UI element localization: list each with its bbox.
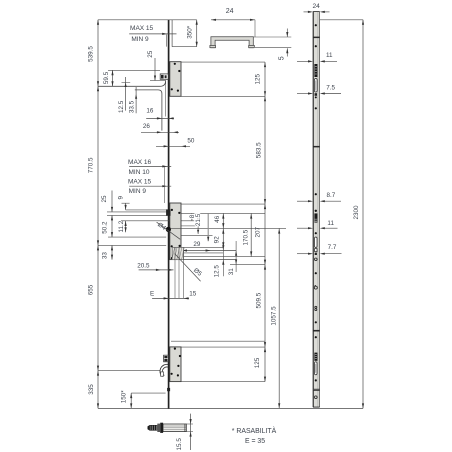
extension piece inner edge	[166, 35, 168, 47]
dim 15.5	[190, 414, 192, 450]
svg-text:92: 92	[213, 236, 220, 244]
dim 33	[111, 245, 113, 259]
svg-text:E = 35: E = 35	[245, 438, 265, 445]
svg-text:207: 207	[255, 226, 262, 237]
svg-text:12.5: 12.5	[213, 265, 220, 278]
faceplate channel cross-section	[211, 37, 253, 48]
dims 46 and 92	[222, 213, 224, 250]
svg-text:MIN 9: MIN 9	[129, 188, 147, 195]
bottom hook crescent	[160, 364, 168, 376]
svg-text:335: 335	[88, 384, 95, 395]
svg-text:125: 125	[255, 73, 262, 84]
top reference line	[98, 19, 197, 21]
svg-text:509.5: 509.5	[256, 292, 263, 308]
screw flange	[157, 424, 160, 432]
dim 25 (top)	[154, 58, 156, 81]
dim 9	[122, 202, 130, 204]
svg-text:46: 46	[214, 215, 221, 223]
svg-text:15.5: 15.5	[176, 438, 183, 451]
spindle reference lines	[126, 209, 167, 211]
svg-text:25: 25	[147, 50, 154, 58]
svg-text:655: 655	[88, 284, 95, 295]
hook linkage outer line with corner arc	[98, 81, 166, 87]
splice joints	[313, 37, 319, 39]
svg-text:MIN 9: MIN 9	[131, 36, 149, 43]
cylinder (hatched)	[172, 247, 183, 259]
cylinder axis chain tick	[98, 244, 166, 246]
gray pointer line	[207, 213, 209, 241]
svg-text:MIN 10: MIN 10	[129, 169, 150, 176]
svg-text:31: 31	[228, 268, 235, 276]
faceplate front-view main vertical line	[168, 20, 170, 409]
svg-text:33: 33	[102, 252, 109, 260]
case top ref	[181, 203, 265, 205]
main latch unit on strip	[315, 210, 317, 212]
svg-text:12.5: 12.5	[118, 100, 125, 113]
dim 59.5	[112, 70, 114, 86]
screw collar	[149, 425, 157, 431]
svg-text:24: 24	[226, 8, 234, 15]
svg-text:25: 25	[101, 195, 108, 203]
bottom hook chain tick	[98, 370, 160, 372]
dim 5 (profile height)	[286, 29, 288, 38]
leader diameter 4	[157, 222, 181, 239]
dim 31	[235, 241, 237, 272]
svg-text:170.5: 170.5	[243, 229, 250, 245]
svg-text:583.5: 583.5	[255, 142, 262, 158]
dim 11.2	[125, 221, 127, 232]
svg-text:20.5: 20.5	[137, 263, 150, 270]
cylinder extension lines	[174, 247, 176, 298]
bottom latch block	[164, 355, 169, 362]
dim 25 (mid)	[111, 191, 113, 212]
svg-text:539.5: 539.5	[87, 46, 94, 62]
dim 125 top	[264, 62, 266, 67]
svg-text:MAX 16: MAX 16	[128, 159, 152, 166]
svg-text:7.7: 7.7	[328, 244, 337, 251]
dim 1057.5	[278, 228, 280, 408]
dim 21.5	[197, 213, 199, 234]
svg-text:125: 125	[254, 357, 261, 368]
leader diameter 5	[175, 254, 201, 282]
svg-text:16: 16	[146, 108, 154, 115]
top extension piece line	[171, 20, 173, 47]
screw tip	[186, 423, 193, 425]
keyhole cutout	[314, 286, 317, 289]
svg-text:Ø5: Ø5	[192, 267, 203, 278]
svg-text:11.2: 11.2	[118, 220, 125, 232]
svg-text:26: 26	[143, 123, 151, 130]
svg-text:29: 29	[193, 241, 201, 248]
svg-text:9: 9	[118, 196, 125, 200]
svg-text:7.5: 7.5	[326, 84, 335, 91]
svg-text:50.2: 50.2	[102, 221, 109, 234]
hub axis ref line	[171, 227, 286, 229]
case top ref line	[181, 61, 265, 63]
dim 12.5 (cylinder)	[222, 241, 224, 276]
svg-text:50: 50	[187, 137, 195, 144]
svg-text:MAX 15: MAX 15	[130, 25, 154, 32]
dim 150* (trimmable bottom)	[131, 392, 165, 394]
strip screw holes	[315, 24, 317, 26]
fixing screw body	[163, 424, 186, 432]
svg-text:150*: 150*	[121, 390, 128, 404]
case bottom ref line	[181, 95, 265, 97]
bottom assembly top ref	[171, 340, 265, 342]
svg-text:15: 15	[189, 290, 197, 297]
top hook deviator case	[170, 62, 181, 97]
svg-text:2300: 2300	[353, 205, 360, 220]
dim chain x=265: 125/583.5/207/509.5/125	[264, 62, 266, 382]
double hole	[315, 306, 317, 308]
bottom reference line	[98, 407, 363, 409]
svg-text:33.5: 33.5	[129, 100, 136, 113]
svg-text:* RASABILITÀ: * RASABILITÀ	[232, 426, 277, 435]
case inner top ref	[181, 212, 265, 214]
cylinder area lines	[174, 246, 224, 248]
dim 33.5	[135, 87, 137, 113]
svg-text:350*: 350*	[186, 25, 193, 39]
dim 170.5	[250, 213, 252, 256]
svg-text:MAX 15: MAX 15	[128, 179, 152, 186]
svg-text:59.5: 59.5	[103, 71, 110, 84]
bottom latch unit on strip	[314, 353, 317, 361]
faceplate side view strip	[313, 12, 320, 408]
svg-text:24: 24	[313, 3, 321, 10]
svg-text:E: E	[150, 290, 154, 297]
svg-text:770.5: 770.5	[87, 157, 94, 173]
svg-text:5: 5	[278, 56, 285, 60]
main lock case	[170, 203, 181, 260]
dim 12.5 (top)	[125, 77, 127, 111]
top latch unit on strip	[314, 64, 317, 77]
hook linkage inner line with corner arc down to rod	[135, 90, 162, 131]
svg-text:Ø4: Ø4	[156, 221, 167, 232]
dim 8	[191, 213, 193, 220]
rod edge line	[165, 81, 167, 117]
screw thread	[150, 426, 152, 431]
left dimension chain	[97, 20, 99, 409]
dim 50.2	[111, 215, 113, 237]
svg-text:11: 11	[327, 220, 334, 227]
overall length dim 2300	[362, 20, 364, 409]
dim 350* (trimmable top)	[196, 20, 198, 47]
hook latch block	[160, 74, 168, 79]
svg-text:1057.5: 1057.5	[271, 306, 278, 326]
hook tip	[161, 372, 164, 376]
svg-text:8.7: 8.7	[327, 192, 336, 199]
svg-text:11: 11	[326, 52, 333, 59]
svg-text:21.5: 21.5	[195, 213, 202, 226]
handle hub	[166, 227, 171, 232]
bottom hook deviator case	[170, 347, 181, 382]
